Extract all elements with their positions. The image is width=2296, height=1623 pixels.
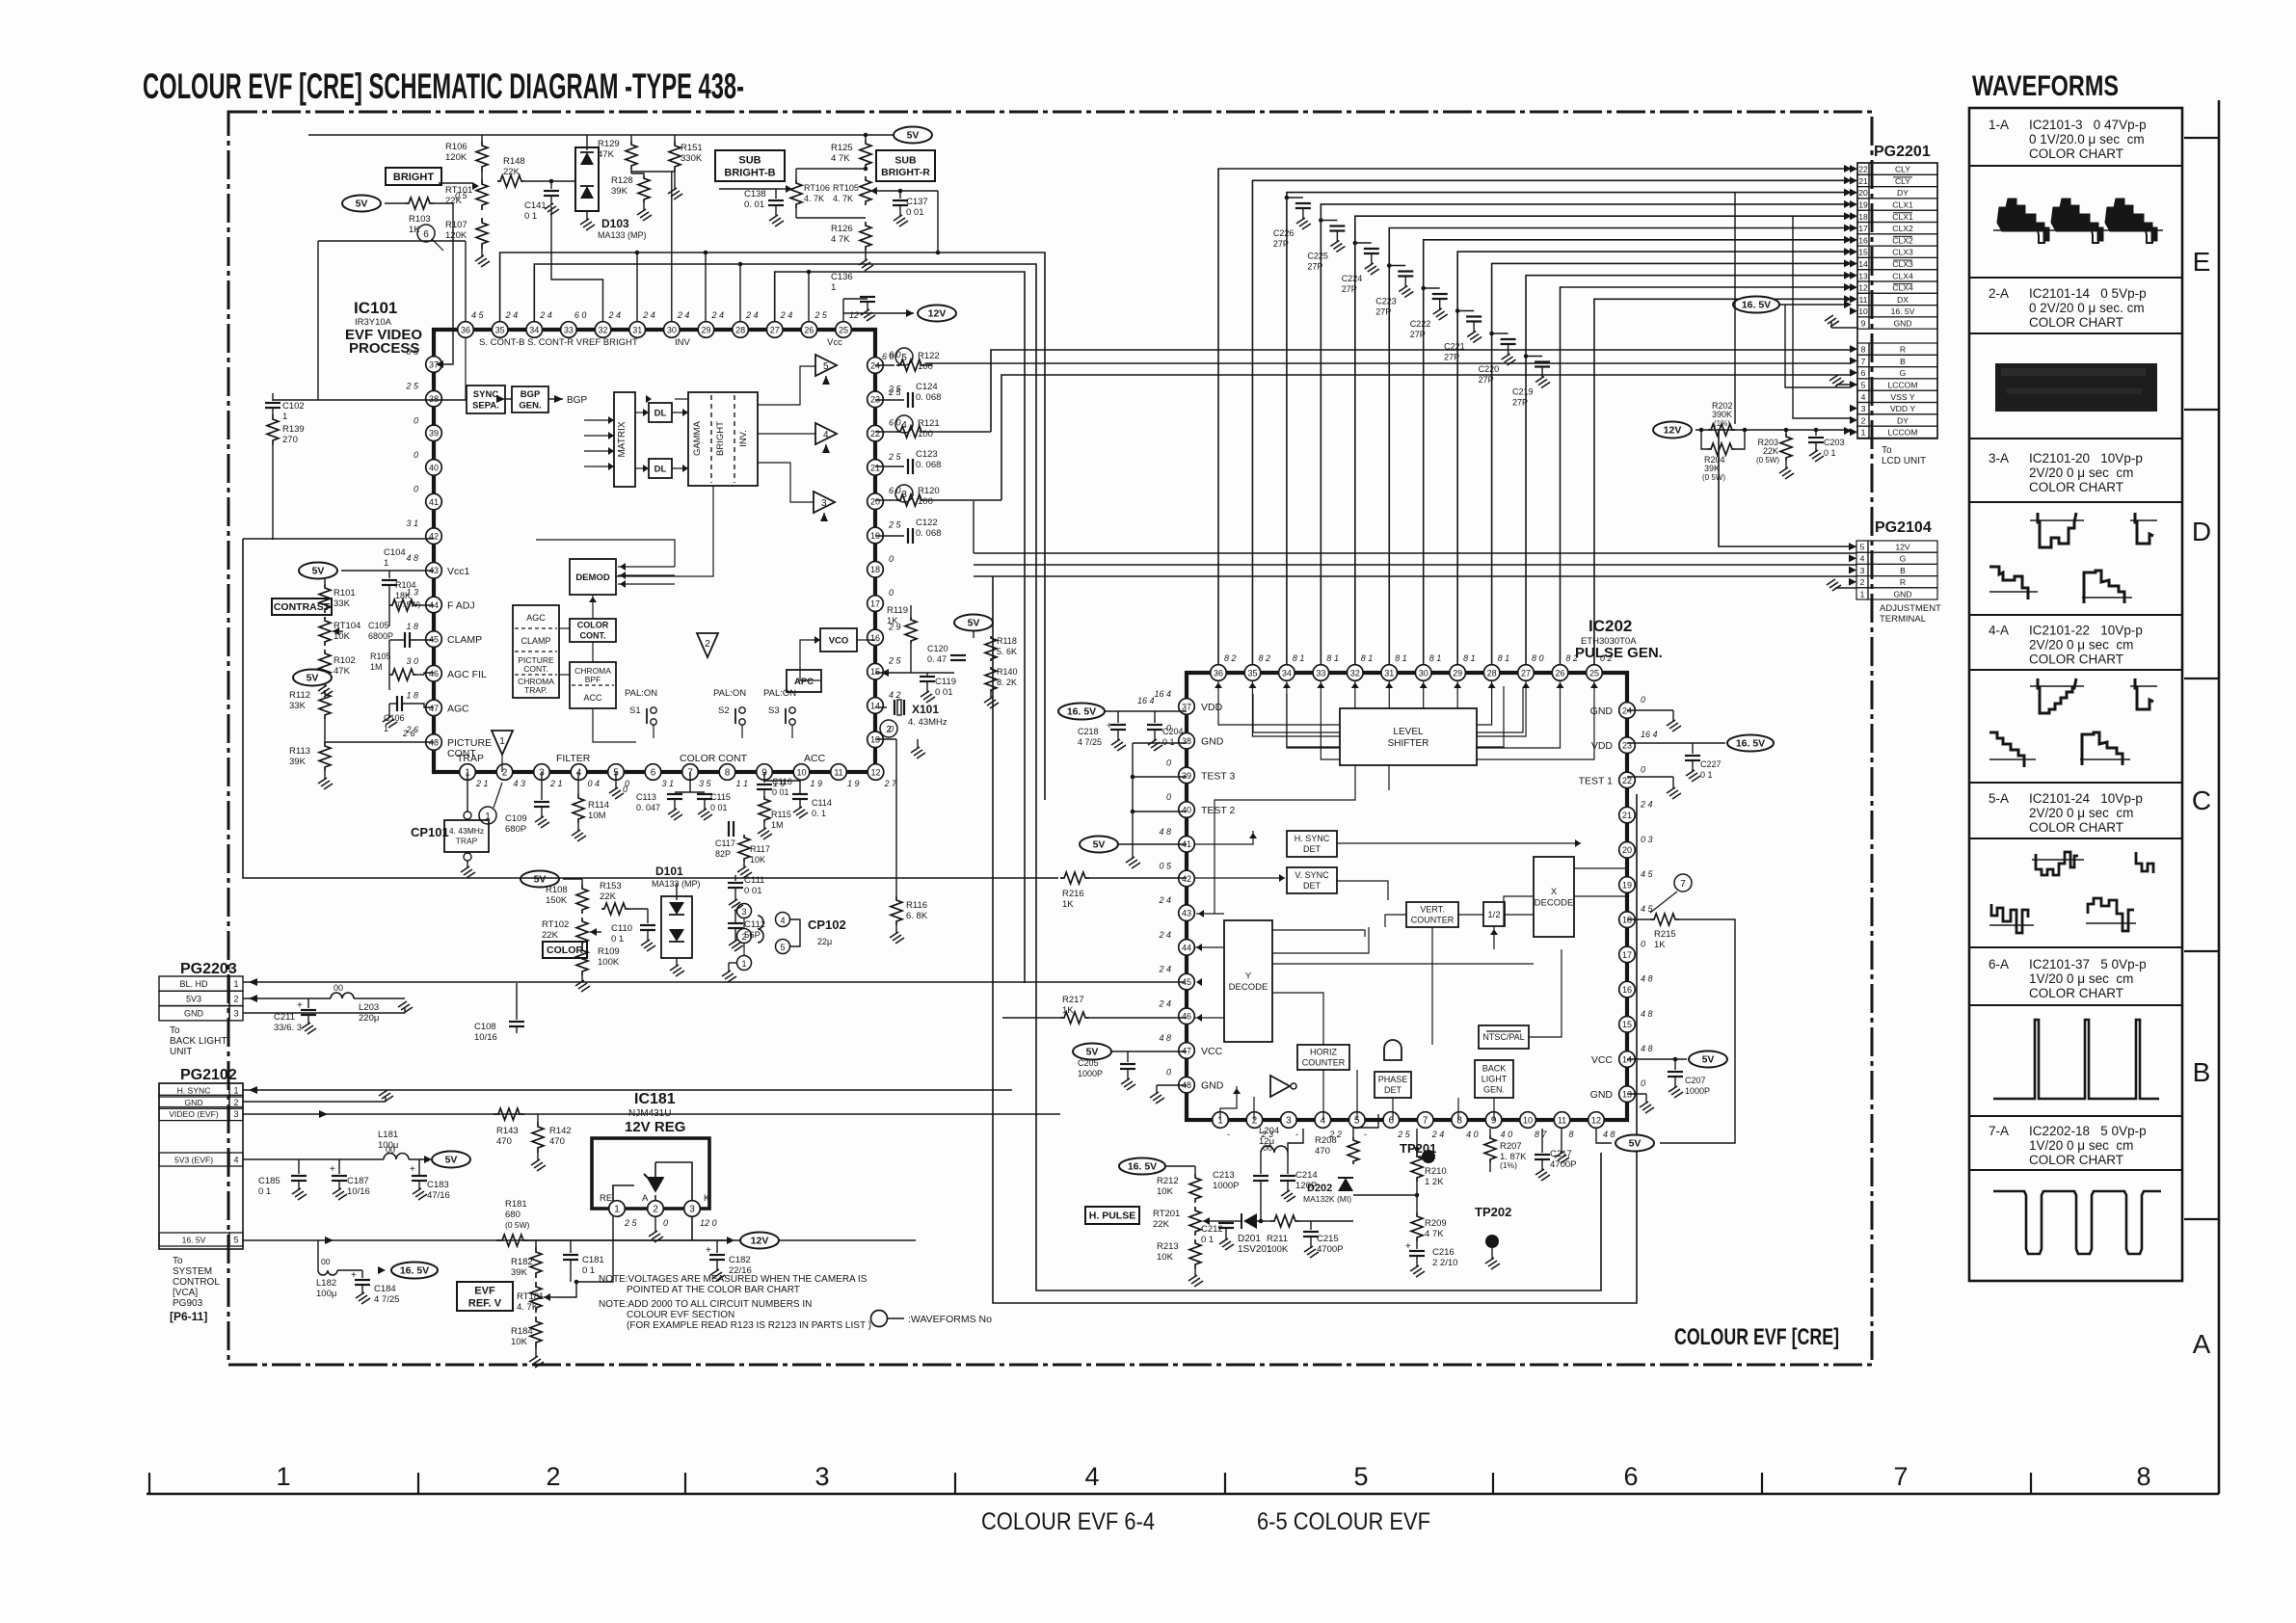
svg-text:30: 30 [667, 325, 677, 334]
vdd pin23 to 16.5V [1627, 742, 1725, 744]
svg-text:POINTED AT THE COLOR BAR CHART: POINTED AT THE COLOR BAR CHART [627, 1285, 800, 1295]
svg-text:C223: C223 [1375, 297, 1397, 306]
svg-text:47K: 47K [334, 666, 351, 677]
block GAMMA BRIGHT INV [688, 392, 758, 486]
IC202 pin 5 [1349, 1112, 1366, 1129]
svg-text:39K: 39K [289, 757, 307, 767]
svg-text:0 01: 0 01 [772, 787, 789, 797]
long wire from pin42 [243, 538, 434, 540]
svg-text:2 4: 2 4 [677, 310, 690, 320]
svg-text:8: 8 [1456, 1115, 1462, 1126]
svg-text:RT181: RT181 [517, 1291, 544, 1302]
resistor R181 [496, 1235, 529, 1246]
capacitor C226 27P [1287, 197, 1303, 199]
svg-text:PG2102: PG2102 [180, 1067, 237, 1083]
svg-text:7: 7 [1680, 879, 1686, 890]
svg-text:R182: R182 [511, 1257, 533, 1267]
IC101 pin 32 [595, 322, 611, 338]
crystal X101 [875, 706, 887, 708]
power 12V oval [906, 309, 914, 317]
cap C203 [1815, 430, 1817, 436]
IC101 pin 26 [801, 322, 817, 338]
IC101 pin 48 [426, 734, 442, 751]
svg-text:G: G [1900, 554, 1907, 564]
IC202 pin 40 [1179, 802, 1195, 818]
svg-text:4700P: 4700P [1317, 1244, 1343, 1255]
svg-text:VIDEO (EVF): VIDEO (EVF) [169, 1109, 219, 1119]
svg-text:2 4: 2 4 [539, 310, 552, 320]
svg-text:7: 7 [1423, 1115, 1428, 1126]
svg-text:CONT.: CONT. [580, 631, 606, 641]
svg-text:5V3: 5V3 [186, 994, 201, 1003]
svg-text:R217: R217 [1062, 995, 1084, 1005]
svg-text:33K: 33K [334, 599, 351, 609]
IC101 pin 12 [868, 764, 884, 781]
svg-text:18K: 18K [395, 591, 411, 600]
svg-text:S2: S2 [718, 705, 730, 716]
svg-text:16: 16 [870, 633, 880, 643]
waveform number legend [871, 1311, 888, 1327]
resistor R109 [576, 946, 588, 975]
svg-text:CONTRAST: CONTRAST [274, 601, 331, 613]
svg-text:R181: R181 [505, 1199, 527, 1210]
block MATRIX [614, 392, 635, 487]
svg-text:8 1: 8 1 [1293, 653, 1305, 663]
IC101 pin 9 [757, 764, 773, 781]
svg-text:H. SYNC: H. SYNC [177, 1086, 211, 1096]
svg-text:V. SYNC: V. SYNC [1295, 870, 1329, 880]
svg-text:13: 13 [1858, 271, 1868, 280]
IC101 pin 46 [426, 665, 442, 681]
svg-text:G: G [1900, 368, 1907, 378]
svg-text:C109: C109 [505, 813, 527, 824]
box CONTRAST [272, 599, 332, 615]
cap C181 [570, 1240, 572, 1253]
IC202 pin 48 [1179, 1077, 1195, 1093]
svg-text:[P6-11]: [P6-11] [170, 1310, 207, 1323]
svg-text:S. CONT-B S. CONT-R VREF B: S. CONT-B S. CONT-R VREF BRIGHT [479, 337, 638, 348]
svg-text:100K: 100K [598, 957, 620, 968]
svg-text:R113: R113 [289, 746, 310, 757]
svg-text:3: 3 [1286, 1115, 1292, 1126]
resistor R120 [895, 485, 913, 502]
block V SYNC DET [1287, 867, 1337, 893]
resistor R204 [1708, 443, 1735, 455]
svg-text:C225: C225 [1307, 252, 1328, 261]
svg-text:35: 35 [495, 325, 505, 334]
svg-text:8: 8 [725, 767, 731, 778]
svg-text:[VCA]: [VCA] [173, 1288, 198, 1298]
block PHASE DET [1375, 1072, 1411, 1098]
svg-text:15: 15 [1622, 1020, 1632, 1029]
ground at PG2203 pin 3 [243, 1012, 405, 1014]
IC202 pin 30 [1415, 665, 1431, 681]
svg-text:PAL:ON: PAL:ON [625, 688, 657, 699]
svg-text:AGC: AGC [526, 613, 546, 623]
svg-text:SUB: SUB [894, 154, 917, 166]
svg-text:2 1: 2 1 [549, 779, 563, 788]
svg-text:0 5: 0 5 [406, 347, 419, 357]
resistor R208 [1348, 1137, 1359, 1164]
svg-text:2: 2 [546, 1462, 560, 1491]
svg-text:8 1: 8 1 [1463, 653, 1476, 663]
svg-text:B: B [1900, 566, 1906, 575]
svg-text:4 7K: 4 7K [831, 234, 850, 245]
IC202 pin 29 [1450, 665, 1466, 681]
svg-text:39K: 39K [511, 1267, 528, 1278]
svg-text:C218: C218 [1078, 727, 1099, 736]
svg-text:12: 12 [1858, 283, 1868, 293]
svg-text:39K: 39K [611, 186, 628, 197]
block APC [787, 670, 821, 692]
svg-text:4: 4 [1860, 554, 1865, 564]
svg-text:16. 5V: 16. 5V [1067, 706, 1096, 718]
svg-text:2 4: 2 4 [1158, 998, 1171, 1008]
svg-text:0 1: 0 1 [1162, 737, 1175, 747]
capacitor C219 27P [1526, 356, 1542, 358]
resistor R184 [530, 1317, 542, 1347]
ground at PG2104 pin 1 [1835, 587, 1856, 589]
svg-text:17: 17 [1858, 224, 1868, 233]
svg-text:VCO: VCO [829, 635, 849, 646]
svg-text:BGP: BGP [521, 389, 541, 400]
svg-text:+: + [410, 1164, 415, 1175]
svg-text:PG2201: PG2201 [1874, 144, 1931, 160]
svg-text:LCCOM: LCCOM [1887, 428, 1917, 438]
svg-text:8. 2K: 8. 2K [997, 678, 1017, 687]
svg-text:10: 10 [1858, 306, 1868, 316]
resistor R101 [324, 578, 326, 584]
svg-text:DEMOD: DEMOD [575, 572, 610, 583]
svg-text:28: 28 [735, 325, 745, 334]
ground pin48 [1157, 1084, 1187, 1086]
IC202 pin 11 [1554, 1112, 1570, 1129]
svg-text:41: 41 [429, 497, 439, 507]
svg-text:4. 43MHz: 4. 43MHz [908, 717, 948, 728]
block CHROMA BPF ACC [570, 662, 616, 708]
svg-text:0 1: 0 1 [258, 1186, 271, 1197]
svg-text:B: B [2193, 1057, 2211, 1087]
svg-text:0 5: 0 5 [455, 191, 468, 200]
svg-text:2 4: 2 4 [642, 310, 655, 320]
svg-text:D101: D101 [655, 865, 683, 878]
svg-text:27P: 27P [1342, 284, 1357, 294]
svg-text:17: 17 [870, 599, 880, 609]
svg-text:R102: R102 [334, 655, 356, 666]
svg-text:C181: C181 [582, 1255, 604, 1265]
svg-text:5: 5 [1860, 543, 1865, 552]
IC101 pin 39 [426, 425, 442, 441]
svg-text:IC2101-14 0 5Vp-p: IC2101-14 0 5Vp-p [2029, 286, 2147, 301]
svg-text:5V: 5V [307, 673, 319, 684]
svg-text:4 8: 4 8 [1641, 974, 1653, 984]
svg-text:22μ: 22μ [817, 937, 832, 946]
IC202 pin 10 [1520, 1112, 1536, 1129]
svg-text:R148: R148 [503, 156, 525, 167]
svg-text:(1%): (1%) [1500, 1160, 1517, 1170]
svg-text:0 5: 0 5 [1159, 862, 1172, 871]
svg-text:2 2/10: 2 2/10 [1432, 1258, 1457, 1268]
svg-text:5. 6K: 5. 6K [997, 647, 1017, 656]
svg-text:7: 7 [1893, 1462, 1908, 1491]
svg-text:GND: GND [184, 1009, 204, 1019]
svg-text:4: 4 [233, 1156, 238, 1165]
svg-text:(0 5W): (0 5W) [505, 1220, 530, 1230]
svg-text:2 5: 2 5 [624, 1218, 638, 1228]
wire DY riser [1734, 193, 1736, 424]
power 16.5V H pulse [1119, 1158, 1165, 1175]
svg-text:CONTROL: CONTROL [173, 1277, 220, 1288]
resistor R108 [581, 879, 583, 885]
svg-text:40: 40 [1182, 806, 1191, 815]
wire pin15 apc [875, 672, 954, 674]
svg-text:10K: 10K [1157, 1186, 1174, 1197]
svg-text:C185: C185 [258, 1176, 280, 1186]
svg-text:36: 36 [1214, 668, 1223, 678]
svg-text:C104: C104 [384, 547, 406, 558]
svg-text:0 01: 0 01 [744, 886, 762, 896]
svg-text:5: 5 [780, 943, 785, 952]
test1 pin22 gnd [1627, 776, 1673, 778]
svg-text:E: E [2193, 247, 2211, 277]
svg-text:R143: R143 [496, 1126, 519, 1136]
svg-text:CLX3: CLX3 [1892, 248, 1913, 257]
IC101 pin 10 [793, 764, 810, 781]
svg-text:5V: 5V [1629, 1138, 1642, 1150]
svg-text:3 0: 3 0 [406, 656, 418, 666]
IC202 pin 42 [1179, 870, 1195, 887]
wire BRIGHT bus lines [465, 241, 467, 322]
svg-text:4 5: 4 5 [1641, 904, 1654, 914]
svg-text:330K: 330K [681, 153, 703, 164]
resistor R216 [1060, 872, 1089, 884]
power 5V at pin47 [1073, 1044, 1111, 1060]
IC101 pin 16 [868, 629, 884, 646]
IC202 pin 46 [1179, 1008, 1195, 1024]
long loop wire V4 [500, 253, 1045, 800]
ground at PG2201 pin 4 [1836, 384, 1857, 386]
svg-text:BGP: BGP [567, 395, 587, 406]
cap C122 [875, 535, 904, 537]
svg-text:R125: R125 [831, 143, 853, 153]
svg-text:S3: S3 [768, 705, 780, 716]
svg-text:1V/20 0 μ sec cm: 1V/20 0 μ sec cm [2029, 971, 2133, 986]
svg-text:RT104: RT104 [334, 621, 360, 631]
svg-text:47/16: 47/16 [427, 1190, 450, 1201]
svg-text:220μ: 220μ [359, 1013, 379, 1024]
IC202 pin 4 [1315, 1112, 1331, 1129]
cap C138 [775, 189, 777, 199]
IC202 pin 23 [1619, 737, 1636, 754]
svg-text:33: 33 [564, 325, 574, 334]
svg-text:30: 30 [1419, 668, 1428, 678]
svg-text:C138: C138 [744, 189, 766, 200]
svg-text:0: 0 [414, 415, 418, 425]
svg-text:R207: R207 [1500, 1141, 1522, 1152]
wire IC181 pin3 to 12V [691, 1216, 693, 1240]
svg-text:9: 9 [1861, 319, 1866, 329]
svg-text:PAL:ON: PAL:ON [763, 688, 796, 699]
trimmer RT102 [576, 918, 588, 946]
svg-text:TEST 3: TEST 3 [1201, 770, 1236, 782]
svg-text:D103: D103 [601, 217, 629, 230]
svg-text:21: 21 [1858, 176, 1868, 186]
svg-text:7-A: 7-A [1989, 1124, 2009, 1138]
power 5V color [521, 871, 559, 888]
svg-text:C220: C220 [1479, 364, 1500, 374]
svg-text:C205: C205 [1078, 1058, 1099, 1068]
svg-text:C108: C108 [474, 1022, 496, 1032]
svg-text:DL: DL [654, 464, 667, 474]
svg-text:4 8: 4 8 [1603, 1130, 1615, 1139]
IC101 pin 8 [719, 764, 735, 781]
svg-text:4 5: 4 5 [471, 310, 485, 320]
svg-text:AGC FIL: AGC FIL [447, 669, 487, 680]
wire pin38 sync [273, 399, 434, 401]
svg-text:22K: 22K [600, 891, 617, 902]
wires top network [481, 172, 483, 179]
svg-text:1K: 1K [1062, 1005, 1074, 1016]
svg-text:(1%): (1%) [1714, 419, 1730, 428]
svg-text:3 1: 3 1 [406, 519, 418, 528]
svg-text:COUNTER: COUNTER [1302, 1058, 1346, 1068]
ground pin5 [615, 772, 617, 788]
svg-text:5V: 5V [1093, 839, 1106, 851]
svg-text:R112: R112 [289, 690, 310, 701]
svg-text:4: 4 [576, 767, 582, 778]
IC202 pin 34 [1279, 665, 1295, 681]
resistor R102 [319, 650, 331, 678]
cap C108 [516, 983, 518, 1020]
svg-text:46: 46 [429, 669, 439, 678]
svg-text:12V: 12V [1664, 425, 1682, 437]
svg-text:GND: GND [1893, 319, 1911, 329]
svg-text:TRAP: TRAP [456, 837, 478, 846]
svg-text:COLOUR EVF SECTION: COLOUR EVF SECTION [627, 1310, 734, 1320]
IC202 pin 19 [1619, 877, 1636, 893]
svg-text:4: 4 [780, 916, 785, 925]
svg-text:6: 6 [651, 767, 656, 778]
svg-text:0: 0 [1166, 758, 1171, 767]
svg-text:16. 5V: 16. 5V [400, 1265, 429, 1277]
svg-text:8 1: 8 1 [1326, 653, 1339, 663]
resistor R128 [638, 175, 650, 202]
svg-text:0: 0 [1641, 939, 1645, 948]
svg-text:UNIT: UNIT [170, 1047, 192, 1057]
svg-text:COLOUR EVF 6-4: COLOUR EVF 6-4 [981, 1508, 1155, 1535]
svg-text:NJM431U: NJM431U [628, 1108, 671, 1119]
svg-text:H. SYNC: H. SYNC [1295, 834, 1330, 843]
svg-text:2: 2 [653, 1204, 658, 1214]
svg-text:-: - [1227, 1130, 1230, 1139]
inductor L203 and cap C211 [331, 993, 354, 998]
cap C102 [272, 393, 274, 401]
svg-text:4 7/25: 4 7/25 [374, 1294, 399, 1305]
svg-text:COUNTER: COUNTER [1411, 916, 1455, 925]
IC101 pin 1 [460, 764, 476, 781]
svg-text:6 0: 6 0 [889, 418, 901, 428]
svg-text:DY: DY [1897, 188, 1909, 198]
svg-text:2 4: 2 4 [1431, 1130, 1445, 1139]
svg-text:20: 20 [1622, 845, 1632, 855]
resistor R125 [860, 140, 871, 169]
svg-text:0 1: 0 1 [524, 211, 537, 222]
svg-text:16: 16 [1622, 985, 1632, 995]
bottom zone ruler [147, 1493, 2219, 1496]
svg-text:5V: 5V [445, 1155, 458, 1166]
svg-text:To: To [170, 1025, 180, 1036]
svg-text:16: 16 [1858, 235, 1868, 245]
svg-text:BRIGHT: BRIGHT [715, 421, 726, 456]
svg-text:NTSC/PAL: NTSC/PAL [1482, 1032, 1524, 1042]
svg-text:BRIGHT: BRIGHT [393, 172, 434, 183]
svg-text:32: 32 [599, 325, 608, 334]
svg-text:VDD: VDD [1201, 702, 1223, 713]
svg-text:47K: 47K [598, 149, 615, 160]
svg-text:10M: 10M [588, 811, 606, 821]
svg-text:EVF: EVF [474, 1285, 495, 1296]
svg-text:0: 0 [1166, 1068, 1171, 1078]
IC202 pin 9 [1485, 1112, 1502, 1129]
resistor R116 [875, 738, 896, 740]
svg-text:1: 1 [1860, 589, 1865, 599]
svg-text:R108: R108 [546, 885, 568, 895]
svg-text:GND: GND [1893, 589, 1911, 599]
cap C119 [920, 676, 935, 678]
svg-text:27P: 27P [1307, 262, 1322, 272]
cap C141 [550, 181, 552, 189]
waveform 4-A traces [2030, 685, 2084, 687]
svg-text:R101: R101 [334, 588, 356, 599]
svg-text:1 9: 1 9 [847, 779, 860, 788]
svg-text:6: 6 [1623, 1462, 1638, 1491]
resistor R151 [669, 141, 681, 172]
IC202 pin 13 [1619, 1086, 1636, 1103]
IC101 pin 21 [868, 460, 884, 476]
svg-text:C119: C119 [935, 677, 956, 687]
svg-text:8 2: 8 2 [1224, 653, 1237, 663]
svg-text:AGC: AGC [447, 703, 469, 714]
svg-text:10K: 10K [750, 855, 765, 865]
IC101 pin 34 [526, 322, 543, 338]
resistor R122 [875, 364, 894, 366]
power 5V at pin41 [1080, 837, 1118, 853]
svg-text:00: 00 [321, 1257, 331, 1266]
svg-text:4. 43MHz: 4. 43MHz [449, 826, 484, 836]
svg-text:R109: R109 [598, 946, 620, 957]
waveform ref 6 [417, 225, 435, 242]
svg-text:0 01: 0 01 [935, 687, 953, 698]
IC202 pin 47 [1179, 1043, 1195, 1059]
IC101 pin 13 [868, 732, 884, 748]
svg-text:5V: 5V [1702, 1054, 1715, 1066]
svg-text:27P: 27P [1410, 330, 1426, 339]
right zone rail [2218, 100, 2221, 1494]
wire verticals IC101 top pins [551, 206, 603, 322]
svg-text:8: 8 [2136, 1462, 2150, 1491]
svg-text:0: 0 [889, 554, 894, 564]
svg-text:23: 23 [1622, 741, 1632, 751]
svg-text:D201: D201 [1238, 1234, 1261, 1244]
svg-text:5V: 5V [534, 874, 547, 886]
svg-text:CONT.: CONT. [523, 664, 548, 674]
IC202 pin 2 [1246, 1112, 1263, 1129]
resistor R203 [1780, 434, 1792, 461]
svg-text:27P: 27P [1273, 239, 1289, 249]
svg-text:F ADJ: F ADJ [447, 599, 475, 611]
svg-text:1: 1 [233, 979, 238, 989]
svg-text:0: 0 [414, 450, 418, 460]
